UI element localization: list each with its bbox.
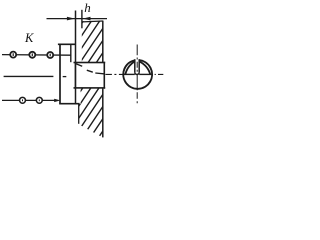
wall hatching upper block xyxy=(52,14,129,68)
svg-text:h: h xyxy=(84,0,91,15)
wall break line (left edge below plate) xyxy=(78,104,80,124)
hidden chain inside pin (dashed diagonal) xyxy=(76,64,83,67)
slot rounded bottom xyxy=(135,72,139,74)
chain bottom line xyxy=(2,99,56,101)
svg-text:K: K xyxy=(24,31,34,45)
chain link circle 3 xyxy=(47,52,53,58)
left lobe inner arc xyxy=(125,61,135,74)
plate (bracket on wall) xyxy=(58,44,80,103)
hub (pin) through wall xyxy=(76,63,105,88)
right lobe inner arc xyxy=(139,61,150,74)
dimension arrowhead right (points left at wall face) xyxy=(83,17,91,21)
end view circle (pin head), outline cut open at slot xyxy=(123,60,152,89)
wall top cap line xyxy=(82,20,103,23)
plate left edge xyxy=(59,44,61,103)
extension line A (plate right face, continues as plate/hub edge) xyxy=(75,11,77,104)
wall hatching lower block xyxy=(47,82,136,142)
right lobe bottom edge xyxy=(139,73,152,75)
dimension line h xyxy=(47,18,108,20)
horizontal axis right of end view xyxy=(155,73,164,75)
chain link circle 1 xyxy=(10,52,16,58)
slot left wall xyxy=(134,59,136,72)
bottom arrowhead at plate xyxy=(54,99,60,102)
plate inner hole edge xyxy=(70,44,72,62)
hub edge overshoots xyxy=(74,62,76,64)
wall right edge xyxy=(102,21,104,63)
bottom chain circle 1 xyxy=(20,97,26,103)
extension line B (wall left face) xyxy=(81,10,83,29)
bottom chain circle 2 xyxy=(36,97,42,103)
chain K top line xyxy=(2,54,71,57)
left lobe bottom edge xyxy=(124,73,135,75)
middle cord line xyxy=(4,75,54,77)
vertical axis of end view (dash-dot) xyxy=(136,45,138,105)
middle cord line stub inside plate xyxy=(63,76,67,78)
dimension arrowhead left (points right at plate face) xyxy=(67,17,75,21)
horizontal axis left of end view (dash-dot) xyxy=(105,73,122,75)
slot right wall xyxy=(138,59,140,72)
chain link circle 2 xyxy=(29,52,35,58)
